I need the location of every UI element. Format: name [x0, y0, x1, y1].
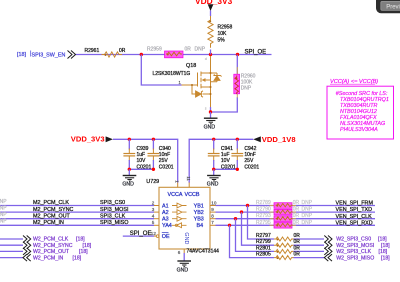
wire branch row2	[242, 212, 275, 245]
svg-text:DNP: DNP	[302, 220, 313, 226]
svg-text:W2_SPI3_MOSI: W2_SPI3_MOSI	[336, 243, 374, 249]
svg-text:YB2: YB2	[194, 210, 204, 216]
svg-text:#Second SRC for LS:: #Second SRC for LS:	[336, 91, 388, 97]
junction row1	[246, 204, 249, 207]
junction node source/gnd	[209, 110, 212, 113]
svg-text:10K: 10K	[218, 31, 228, 37]
junction C940	[152, 138, 155, 141]
svg-text:B4: B4	[197, 223, 204, 229]
svg-text:W2_PCM_SYNC: W2_PCM_SYNC	[33, 243, 73, 249]
svg-text:[18]: [18]	[381, 255, 390, 261]
wire branch row1	[248, 206, 275, 240]
svg-text:[18]: [18]	[17, 52, 26, 58]
buffer glyph row3	[172, 216, 187, 221]
wire caps bottom	[214, 168, 238, 170]
port W2_PCM_IN (input chevron)	[23, 254, 31, 261]
svg-text:1: 1	[179, 80, 182, 85]
junction row4	[228, 224, 231, 227]
svg-text:DNP: DNP	[302, 213, 313, 219]
svg-text:0R: 0R	[294, 233, 301, 239]
port W2_PCM_CLK	[23, 236, 31, 243]
port W2_PCM_OUT	[23, 248, 31, 255]
wire A2 row	[0, 211, 154, 213]
pin OE stub with bubble	[154, 235, 156, 237]
svg-text:VCCA: VCCA	[168, 192, 183, 198]
resistor R2801	[256, 245, 324, 253]
svg-text:VDD_1V8: VDD_1V8	[262, 135, 296, 144]
svg-text:10V: 10V	[137, 158, 147, 164]
svg-text:DNP: DNP	[0, 199, 7, 205]
svg-text:SPI3_SW_EN: SPI3_SW_EN	[32, 52, 66, 58]
svg-text:R2958: R2958	[218, 25, 233, 31]
junction row2	[240, 210, 243, 213]
svg-text:0R: 0R	[293, 220, 300, 226]
svg-text:SPI_OE: SPI_OE	[130, 231, 152, 237]
svg-text:OE: OE	[162, 234, 170, 240]
svg-text:10V: 10V	[221, 158, 231, 164]
svg-text:[18]: [18]	[378, 237, 387, 243]
port W2_SPI3_MISO (input chevron)	[324, 254, 332, 261]
wire SPI_OE to OE pin	[123, 235, 154, 237]
power flag VDD_1V8	[253, 135, 295, 144]
resistor R2958	[208, 16, 233, 55]
svg-text:L2SK3018WT1G: L2SK3018WT1G	[153, 71, 191, 77]
gate protection zener branch	[192, 85, 196, 94]
ground (C939/C940)	[122, 169, 136, 187]
svg-text:1uF: 1uF	[221, 152, 230, 158]
svg-text:d: d	[205, 57, 207, 61]
svg-text:A1: A1	[162, 203, 169, 209]
wire gate branch	[141, 55, 181, 86]
svg-text:YB3: YB3	[194, 217, 204, 223]
buffer glyph row2	[172, 210, 187, 215]
svg-text:0R: 0R	[293, 200, 300, 206]
svg-text:Q18: Q18	[186, 63, 196, 69]
svg-text:R2961: R2961	[85, 48, 100, 54]
port W2_SPI3_CLK	[324, 248, 332, 255]
power flag VDD_3V3 (top, cut off)	[195, 0, 233, 16]
svg-text:R2959: R2959	[147, 47, 162, 53]
wire YB1 row	[216, 205, 376, 207]
wire W2_PCM_OUT	[0, 250, 23, 252]
resistor R2793 (DNP)	[256, 213, 313, 221]
wire branch row3	[236, 219, 275, 252]
svg-text:11: 11	[186, 176, 191, 181]
svg-text:[18]: [18]	[381, 243, 390, 249]
DNP hints left edge	[0, 199, 7, 225]
svg-text:7: 7	[211, 220, 214, 225]
svg-text:A2: A2	[162, 210, 169, 216]
wire W2_PCM_SYNC	[0, 244, 23, 246]
ground (C941/C942)	[207, 169, 221, 187]
svg-text:1: 1	[174, 180, 179, 183]
wire caps bottom	[129, 168, 153, 170]
svg-text:8: 8	[211, 214, 214, 219]
svg-text:1uF: 1uF	[137, 152, 146, 158]
svg-text:0R: 0R	[293, 207, 300, 213]
svg-text:R2805: R2805	[256, 252, 271, 258]
svg-text:[18]: [18]	[379, 249, 388, 255]
wire B4 row	[216, 224, 376, 226]
svg-text:W2_PCM_IN: W2_PCM_IN	[33, 255, 64, 261]
junction node at R2958	[209, 53, 212, 56]
svg-text:C0201: C0201	[159, 164, 174, 170]
internal junction dots	[191, 84, 193, 86]
pin stubs right rows	[184, 206, 215, 254]
resistor R2789 (DNP)	[256, 200, 313, 208]
drain lead	[201, 72, 217, 74]
svg-text:R2793: R2793	[256, 213, 271, 219]
svg-text:GND: GND	[207, 181, 219, 187]
gate bar	[197, 73, 199, 87]
svg-text:W2_SPI3_CLK: W2_SPI3_CLK	[336, 249, 371, 255]
wire YB3 row	[216, 218, 376, 220]
svg-text:0R: 0R	[294, 239, 301, 245]
svg-text:DNP: DNP	[302, 200, 313, 206]
svg-text:0R: 0R	[119, 48, 126, 54]
svg-text:0R: 0R	[293, 213, 300, 219]
svg-text:VDD_3V3: VDD_3V3	[195, 0, 233, 6]
svg-text:W2_SPI3_CS0: W2_SPI3_CS0	[336, 237, 371, 243]
pin numbers 10 9 8 7 6	[178, 200, 217, 255]
junction node gate branch	[140, 53, 143, 56]
svg-text:0R: 0R	[294, 252, 301, 258]
pin VCCA stub	[177, 183, 179, 188]
svg-text:4: 4	[152, 214, 155, 219]
junction node at R2960	[236, 53, 239, 56]
capacitor C940	[148, 139, 174, 170]
svg-text:74AVC4T3144: 74AVC4T3144	[187, 249, 220, 255]
wire YB2 row	[216, 211, 376, 213]
svg-text:R2789: R2789	[256, 200, 271, 206]
svg-text:DNP: DNP	[195, 47, 206, 53]
svg-text:W2_PCM_OUT: W2_PCM_OUT	[33, 249, 70, 255]
resistor R2959 (DNP)	[147, 47, 206, 58]
svg-text:VEN_SPI_FRM: VEN_SPI_FRM	[336, 201, 374, 207]
buffer glyph row1	[172, 203, 187, 208]
svg-text:0R: 0R	[294, 245, 301, 251]
svg-text:GND: GND	[204, 125, 216, 131]
resistor R2799	[256, 239, 324, 247]
svg-text:3: 3	[152, 207, 155, 212]
svg-text:W2_SPI3_MISO: W2_SPI3_MISO	[336, 255, 374, 261]
wire A3 row	[0, 218, 154, 220]
body arrow head	[202, 78, 206, 82]
channel bar segments	[200, 72, 202, 77]
svg-text:VDD_3V3: VDD_3V3	[71, 134, 105, 143]
svg-text:R2801: R2801	[256, 245, 271, 251]
svg-text:s: s	[205, 106, 207, 110]
op-amp U1 U729 body	[146, 176, 219, 254]
svg-text:6: 6	[178, 250, 181, 255]
wire W2_PCM_IN	[0, 257, 23, 259]
body diode D-S right	[211, 73, 218, 82]
svg-text:2: 2	[152, 200, 155, 205]
svg-text:9: 9	[211, 207, 214, 212]
svg-text:SPI3_MISO: SPI3_MISO	[100, 220, 128, 226]
power flag VDD_3V3	[71, 134, 113, 143]
resistor R2790 (DNP)	[256, 207, 313, 215]
source lead	[201, 86, 211, 88]
svg-text:5%: 5%	[218, 38, 226, 44]
svg-text:10nF: 10nF	[244, 152, 255, 158]
svg-text:PI4ULS3V304A: PI4ULS3V304A	[340, 127, 378, 133]
junction C939	[128, 138, 131, 141]
svg-text:DNP: DNP	[0, 206, 7, 212]
svg-text:5: 5	[152, 220, 155, 225]
ground (U729 pin 6)	[177, 253, 191, 273]
svg-text:U729: U729	[146, 179, 159, 185]
body arrow	[203, 79, 211, 81]
svg-text:DNP: DNP	[0, 212, 7, 218]
svg-text:M2_PCM_IN: M2_PCM_IN	[33, 220, 64, 226]
svg-text:GND: GND	[177, 267, 189, 273]
svg-text:A3: A3	[162, 217, 169, 223]
svg-text:VEN_SPI_CLK: VEN_SPI_CLK	[336, 214, 373, 220]
port SPI3_SW_EN	[17, 51, 76, 59]
svg-text:GND: GND	[183, 232, 189, 244]
svg-text:0R: 0R	[185, 47, 192, 53]
svg-text:DNP: DNP	[241, 86, 252, 92]
ground (Q18 source)	[204, 112, 218, 131]
svg-text:GND: GND	[122, 181, 134, 187]
svg-text:[18]: [18]	[76, 237, 85, 243]
svg-text:25V: 25V	[244, 158, 254, 164]
svg-text:R2795: R2795	[256, 220, 271, 226]
svg-text:[18]: [18]	[79, 249, 88, 255]
svg-text:SPI_OE: SPI_OE	[245, 49, 267, 55]
transistor Q2 Q18 L2SK3018WT1G	[153, 56, 222, 110]
wire source to gnd and R2960	[211, 97, 238, 112]
svg-text:SPI3_CS0: SPI3_CS0	[100, 200, 125, 206]
svg-text:25V: 25V	[159, 158, 169, 164]
wire A1 row	[0, 205, 154, 207]
svg-text:M2_PCM_OUT: M2_PCM_OUT	[33, 213, 71, 219]
pin 1 gate lead	[182, 84, 193, 86]
svg-text:M2_PCM_CLK: M2_PCM_CLK	[33, 200, 69, 206]
svg-text:M2_PCM_SYNC: M2_PCM_SYNC	[33, 207, 74, 213]
wire branch row4	[230, 225, 275, 257]
resistor R2960 (DNP)	[234, 55, 256, 98]
pin numbers 2 3 4 5 12	[151, 200, 157, 236]
svg-text:R2790: R2790	[256, 207, 271, 213]
buffer glyph row4 (reversed)	[172, 223, 187, 228]
svg-text:DNP: DNP	[0, 219, 7, 225]
svg-text:VCCB: VCCB	[185, 192, 200, 198]
pin VCCB stub	[188, 183, 190, 188]
port W2_SPI3_MOSI	[324, 242, 332, 249]
svg-text:VEN_SPI_TXD: VEN_SPI_TXD	[336, 207, 373, 213]
resistor R2961	[85, 48, 126, 57]
junction C941	[212, 138, 215, 141]
wire SPI_OE horizontal	[76, 54, 272, 56]
note title VCC(A) <= VCC(B)	[327, 79, 394, 139]
svg-text:VEN_SPI_RXD: VEN_SPI_RXD	[336, 220, 373, 226]
port W2_SPI3_CS0	[324, 236, 332, 243]
svg-text:10: 10	[211, 200, 217, 205]
zener diode symbol	[196, 91, 202, 97]
svg-text:W2_PCM_CLK: W2_PCM_CLK	[33, 237, 69, 243]
wire YA4 row	[0, 224, 154, 226]
resistor R2805	[256, 252, 324, 260]
svg-text:SPI3_MOSI: SPI3_MOSI	[100, 207, 128, 213]
svg-text:DNP: DNP	[302, 207, 313, 213]
svg-text:R2797: R2797	[256, 233, 271, 239]
resistor R2795 (DNP)	[256, 220, 313, 228]
svg-text:Previe: Previe	[386, 5, 400, 11]
pin 6 stub bottom	[183, 249, 185, 253]
resistor R2797	[256, 233, 324, 241]
capacitor C942	[231, 139, 259, 170]
svg-text:R2799: R2799	[256, 239, 271, 245]
capacitor C941	[208, 139, 236, 170]
svg-text:YA4: YA4	[162, 223, 172, 229]
wire VDD_3V3 rail	[113, 139, 178, 182]
pin stubs left rows	[154, 206, 159, 237]
junction C942	[236, 138, 239, 141]
svg-text:12: 12	[151, 231, 157, 236]
junction row3	[234, 217, 237, 220]
wire W2_PCM_CLK	[0, 238, 23, 240]
svg-text:10nF: 10nF	[159, 152, 170, 158]
capacitor C939	[123, 139, 151, 170]
wire VDD_1V8 rail	[189, 139, 253, 182]
body diode triangle	[214, 76, 220, 81]
svg-text:YB1: YB1	[194, 203, 204, 209]
svg-text:SPI3_CLK: SPI3_CLK	[100, 213, 126, 219]
svg-text:[18]: [18]	[73, 255, 82, 261]
port W2_PCM_SYNC	[23, 242, 31, 249]
note box	[327, 86, 394, 139]
svg-text:[18]: [18]	[83, 243, 92, 249]
svg-text:C0201: C0201	[244, 164, 259, 170]
